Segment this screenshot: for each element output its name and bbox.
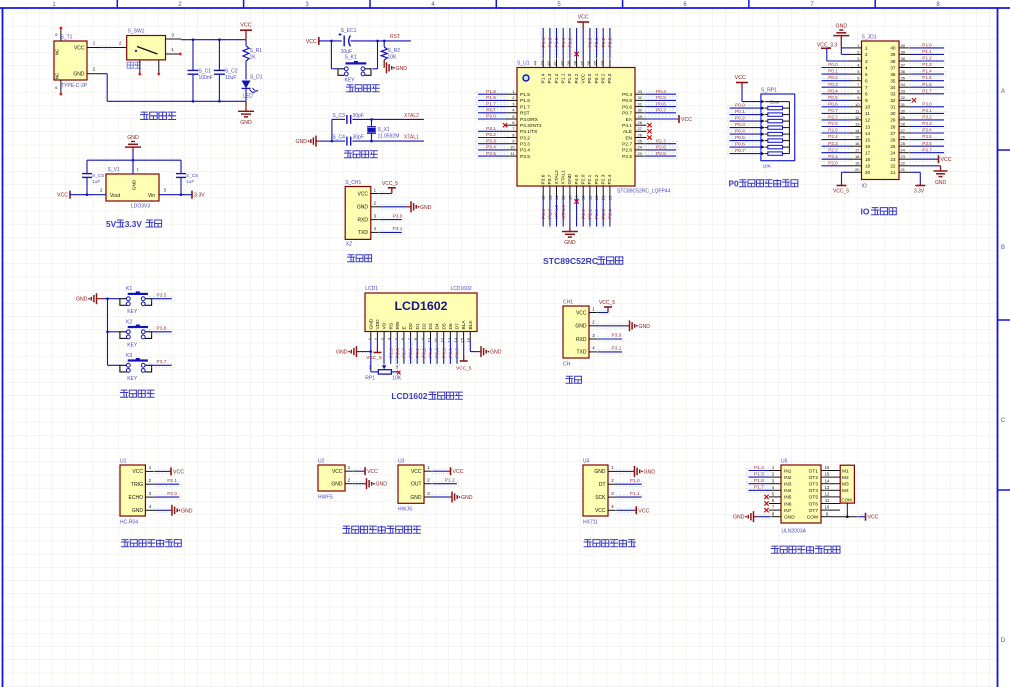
svg-text:VCC: VCC [306, 39, 317, 45]
svg-text:VCC: VCC [578, 15, 589, 21]
svg-text:D7: D7 [455, 323, 461, 329]
T1 top pin stub [60, 29, 62, 42]
svg-text:VCC: VCC [868, 515, 879, 521]
svg-text:S_JD1: S_JD1 [862, 35, 877, 41]
svg-text:P2.7: P2.7 [622, 142, 632, 148]
svg-text:VCC: VCC [357, 191, 368, 197]
svg-text:17: 17 [855, 148, 860, 153]
pin1 GND wire down-left and to potentiometer [370, 339, 372, 372]
svg-text:P0.1: P0.1 [594, 37, 600, 47]
svg-text:23: 23 [890, 157, 896, 162]
svg-text:P0.3: P0.3 [828, 82, 838, 87]
svg-text:11: 11 [865, 111, 870, 116]
svg-text:P0.5: P0.5 [735, 135, 745, 141]
svg-text:28: 28 [638, 120, 643, 125]
svg-text:P1.1: P1.1 [922, 49, 932, 54]
svg-text:OT1: OT1 [809, 468, 819, 474]
svg-text:GND: GND [240, 120, 252, 126]
svg-text:13: 13 [855, 121, 860, 126]
svg-text:VCC: VCC [240, 23, 251, 29]
svg-text:10: 10 [510, 145, 515, 150]
svg-text:35: 35 [901, 76, 906, 81]
svg-text:TYPE-C-2P: TYPE-C-2P [61, 83, 88, 89]
svg-text:P2.3: P2.3 [828, 141, 838, 146]
svg-text:E: E [402, 326, 408, 329]
svg-text:32: 32 [890, 98, 896, 103]
svg-text:M4: M4 [842, 488, 849, 494]
svg-text:24: 24 [890, 151, 896, 156]
svg-text:33: 33 [638, 89, 643, 94]
svg-text:5: 5 [865, 72, 868, 77]
power supply circuit 电源电路 [54, 23, 263, 126]
svg-text:GND: GND [784, 515, 795, 521]
svg-text:S_SW1: S_SW1 [128, 29, 145, 35]
pin3 wire net P2.0 [154, 495, 181, 499]
svg-text:28: 28 [890, 124, 896, 129]
svg-text:P1.0: P1.0 [922, 43, 932, 48]
JD1 right pins 40-21 [899, 47, 911, 49]
svg-text:XZ: XZ [346, 242, 352, 248]
wire EC1 to RST net [351, 40, 411, 42]
svg-text:ECHO: ECHO [129, 495, 144, 501]
svg-text:RP1: RP1 [365, 376, 375, 382]
svg-text:P0.4: P0.4 [435, 348, 441, 358]
svg-text:P0.6: P0.6 [656, 101, 666, 107]
svg-text:23: 23 [638, 151, 643, 156]
svg-text:P2.3: P2.3 [601, 209, 607, 219]
svg-text:K2: K2 [126, 319, 132, 325]
svg-text:P0.1: P0.1 [415, 348, 421, 358]
svg-text:P1.2: P1.2 [922, 56, 932, 61]
svg-text:P0.0: P0.0 [408, 348, 414, 358]
svg-text:U3: U3 [398, 459, 405, 465]
reset circuit 复位电路 [306, 28, 411, 92]
svg-text:P2.6: P2.6 [395, 348, 401, 358]
U1 left pins 1-11 [506, 93, 518, 95]
svg-text:P0.3: P0.3 [607, 73, 613, 83]
svg-text:K1: K1 [126, 286, 132, 292]
svg-text:14: 14 [865, 131, 871, 136]
svg-text:32: 32 [638, 95, 643, 100]
svg-text:15: 15 [825, 472, 830, 477]
svg-text:P1.5: P1.5 [922, 75, 932, 80]
common rail inside pack [765, 101, 789, 103]
U2 pin1 to VCC [353, 469, 365, 473]
svg-text:GND: GND [639, 324, 651, 330]
svg-text:1K: 1K [250, 55, 257, 61]
svg-text:P3.3: P3.3 [922, 121, 932, 126]
svg-text:P1.6: P1.6 [486, 95, 496, 101]
svg-text:GND: GND [73, 72, 85, 78]
motor connector COM pin down wire [846, 503, 848, 517]
svg-text:P4.2: P4.2 [574, 73, 580, 83]
svg-text:37: 37 [901, 63, 906, 68]
svg-text:GND: GND [368, 318, 374, 329]
svg-text:21: 21 [890, 170, 896, 175]
push button K1 KEY [108, 298, 121, 300]
title 复位电路 [347, 85, 354, 92]
svg-text:27: 27 [638, 126, 643, 131]
svg-text:P2.5: P2.5 [828, 128, 838, 133]
svg-text:EA: EA [626, 117, 633, 123]
svg-text:P0.0: P0.0 [828, 62, 838, 67]
svg-text:VCC: VCC [735, 75, 746, 81]
svg-text:1: 1 [865, 46, 868, 51]
svg-text:VCC_5: VCC_5 [456, 366, 472, 372]
svg-text:P1.3: P1.3 [547, 73, 553, 83]
svg-text:P2.1: P2.1 [828, 154, 838, 159]
svg-text:S_C2: S_C2 [225, 69, 238, 75]
svg-text:TXD: TXD [577, 350, 587, 356]
svg-text:42: 42 [546, 60, 551, 65]
svg-text:P0.0: P0.0 [588, 37, 594, 47]
svg-text:U1: U1 [120, 459, 127, 465]
vertical trunk wire [107, 299, 109, 366]
svg-text:VCC: VCC [638, 508, 649, 514]
svg-text:P2.3: P2.3 [601, 174, 607, 184]
svg-text:12: 12 [855, 115, 860, 120]
svg-text:P4.1: P4.1 [622, 123, 632, 129]
svg-text:29: 29 [901, 115, 906, 120]
svg-text:XTAL2: XTAL2 [554, 170, 560, 185]
svg-text:GND: GND [935, 180, 947, 186]
svg-text:VCC: VCC [576, 310, 587, 316]
svg-text:EN: EN [625, 135, 632, 141]
svg-text:IO: IO [861, 207, 870, 217]
svg-text:9: 9 [865, 98, 868, 103]
svg-text:36: 36 [890, 72, 896, 77]
connector T1 TYPE-C-2P [54, 41, 87, 80]
svg-text:VCC: VCC [411, 469, 422, 475]
wire gnd down to regulator [132, 152, 134, 174]
svg-text:LCD1602: LCD1602 [394, 299, 447, 313]
svg-text:RXD: RXD [576, 337, 587, 343]
svg-text:2: 2 [865, 52, 868, 57]
pin4 wire to VCC [616, 508, 636, 512]
U1 bottom pins 12-22 [542, 186, 544, 198]
svg-text:P0.6: P0.6 [735, 142, 745, 148]
svg-text:P3.3: P3.3 [486, 138, 496, 144]
svg-text:P2.5: P2.5 [388, 348, 394, 358]
svg-text:LDO3V3: LDO3V3 [131, 204, 150, 210]
GND power port [245, 101, 247, 111]
svg-text:P1.7: P1.7 [486, 101, 496, 107]
pin32 no connect [912, 98, 916, 102]
svg-text:33: 33 [901, 89, 906, 94]
wire net P3.5 [150, 297, 174, 301]
svg-text:29: 29 [638, 114, 643, 119]
capacitor C1 100nF [192, 40, 194, 71]
svg-text:P3.0: P3.0 [922, 101, 932, 106]
svg-text:40: 40 [901, 43, 906, 48]
svg-text:31: 31 [638, 101, 643, 106]
svg-text:20: 20 [865, 170, 871, 175]
svg-text:S_R1: S_R1 [250, 48, 263, 54]
svg-text:XTAL1: XTAL1 [561, 204, 567, 219]
IR receiver module U3 HWJS [343, 459, 473, 534]
COM net wire to VCC [833, 516, 861, 518]
svg-text:15: 15 [855, 135, 860, 140]
svg-text:OT6: OT6 [809, 501, 819, 507]
wire XTAL2 net [352, 118, 424, 120]
wire OT3 to M3 [833, 483, 841, 485]
svg-text:P2.2: P2.2 [828, 147, 838, 152]
svg-text:P0.6: P0.6 [622, 104, 632, 110]
svg-text:S_RP1: S_RP1 [761, 88, 777, 94]
GND power port left [315, 136, 317, 147]
svg-text:18: 18 [865, 157, 871, 162]
svg-text:P2.6: P2.6 [622, 148, 632, 154]
svg-text:P0.2: P0.2 [421, 348, 427, 358]
svg-text:10: 10 [855, 102, 860, 107]
svg-text:24: 24 [901, 148, 906, 153]
svg-text:17: 17 [865, 151, 871, 156]
svg-text:14: 14 [825, 478, 830, 483]
serial port connector CH1 串口 [563, 300, 650, 384]
svg-text:P1.1: P1.1 [561, 37, 567, 47]
svg-text:15: 15 [865, 137, 871, 142]
svg-text:SCK: SCK [595, 495, 606, 501]
svg-text:XTAL2: XTAL2 [404, 113, 419, 119]
resistor R2 10K [383, 41, 385, 47]
svg-text:P0.4: P0.4 [735, 129, 745, 135]
svg-text:P0: P0 [729, 180, 740, 189]
svg-text:STC89C52RC: STC89C52RC [543, 256, 598, 266]
svg-text:23: 23 [901, 154, 906, 159]
title 下载口 [348, 255, 355, 262]
svg-text:P4.0: P4.0 [574, 174, 580, 184]
svg-text:30pF: 30pF [353, 135, 364, 141]
svg-text:30: 30 [901, 108, 906, 113]
key circuit 按键电路 [76, 286, 174, 397]
svg-text:16: 16 [855, 141, 860, 146]
svg-text:P3.6: P3.6 [541, 209, 547, 219]
svg-text:P2.1: P2.1 [167, 478, 177, 484]
svg-text:26: 26 [638, 132, 643, 137]
title 压力检测模块 [584, 540, 591, 547]
pack resistor element 7 net P0.6 [765, 146, 768, 148]
svg-text:P3.6: P3.6 [541, 174, 547, 184]
svg-text:P2.0: P2.0 [581, 209, 587, 219]
svg-text:D1: D1 [415, 323, 421, 329]
U2 pin2 to GND [353, 482, 366, 486]
crystal X1 11.0592M [371, 119, 373, 126]
svg-text:RXD: RXD [357, 217, 368, 223]
svg-text:11: 11 [825, 498, 830, 503]
svg-text:P1.2: P1.2 [554, 37, 560, 47]
svg-text:Vout: Vout [110, 193, 121, 199]
pin4 wire net P3.1 [379, 230, 404, 234]
svg-text:P2.5: P2.5 [656, 151, 666, 157]
svg-text:10K: 10K [392, 376, 402, 382]
svg-text:P3.2: P3.2 [486, 132, 496, 138]
svg-text:P0.5: P0.5 [622, 98, 632, 104]
pin1 wire to VCC_5 [379, 191, 394, 195]
svg-text:IN2: IN2 [784, 475, 792, 481]
svg-text:D3: D3 [428, 323, 434, 329]
svg-text:12: 12 [865, 118, 871, 123]
svg-text:5V: 5V [106, 220, 117, 229]
capacitor C6 1uF [180, 160, 182, 173]
VCC power port left [318, 37, 320, 45]
svg-text:P1.0: P1.0 [630, 478, 640, 484]
svg-text:3.3V: 3.3V [914, 189, 925, 195]
title 四相五线步进电机 [771, 546, 778, 553]
potentiometer RP1 10K [378, 370, 391, 374]
svg-text:D6: D6 [448, 323, 454, 329]
wire OT1 to M1 [833, 470, 841, 472]
svg-text:P3.4: P3.4 [486, 145, 496, 151]
svg-text:P2.0: P2.0 [167, 491, 177, 497]
svg-text:25: 25 [638, 139, 643, 144]
svg-text:31: 31 [890, 105, 896, 110]
svg-text:P2.2: P2.2 [594, 174, 600, 184]
svg-text:P2.0: P2.0 [828, 160, 838, 165]
svg-text:6: 6 [865, 79, 868, 84]
pack resistor element 8 net P0.7 [765, 153, 768, 155]
svg-text:P1.6: P1.6 [754, 478, 764, 484]
svg-text:P0.2: P0.2 [601, 73, 607, 83]
U3 pin2 wire net P1.2 [432, 482, 459, 486]
svg-text:S_U1: S_U1 [517, 61, 530, 67]
svg-text:GND: GND [181, 508, 193, 514]
svg-text:GND: GND [575, 324, 587, 330]
svg-text:P1.7: P1.7 [754, 485, 764, 491]
svg-text:38: 38 [573, 60, 578, 65]
svg-text:100nF: 100nF [199, 75, 213, 81]
svg-text:S_V1: S_V1 [108, 167, 120, 173]
svg-text:37: 37 [890, 65, 896, 70]
svg-text:VCC_5: VCC_5 [599, 300, 615, 306]
pin3 wire net P3.0 [598, 337, 625, 341]
title 分离式红外开关模块 [343, 526, 350, 533]
svg-text:COM: COM [807, 515, 818, 521]
svg-text:D4: D4 [435, 323, 441, 329]
svg-text:P1.4: P1.4 [541, 73, 547, 83]
svg-text:RST: RST [390, 34, 400, 40]
svg-text:39: 39 [890, 52, 896, 57]
title 超声波测距模块 [121, 540, 128, 547]
svg-text:P4.3/INT2: P4.3/INT2 [520, 123, 542, 129]
pin4 wire to GND [154, 508, 171, 512]
svg-text:S_C3: S_C3 [332, 113, 345, 119]
pack resistor element 3 net P0.2 [765, 120, 768, 122]
svg-text:P0.4: P0.4 [622, 92, 632, 98]
svg-text:GND: GND [420, 205, 432, 211]
svg-text:LCD1602: LCD1602 [451, 286, 472, 292]
svg-text:3.3V: 3.3V [194, 193, 205, 199]
GND power port left [96, 293, 98, 304]
svg-text:P3.4: P3.4 [922, 128, 932, 133]
svg-text:P0.5: P0.5 [656, 95, 666, 101]
svg-text:P3.4: P3.4 [520, 148, 530, 154]
svg-text:26: 26 [901, 135, 906, 140]
svg-text:P0.3: P0.3 [735, 122, 745, 128]
svg-text:P0.7: P0.7 [455, 348, 461, 358]
LED D1 [242, 81, 251, 89]
svg-text:P2.5: P2.5 [622, 154, 632, 160]
svg-text:P1.3: P1.3 [922, 62, 932, 67]
svg-text:P0.6: P0.6 [828, 101, 838, 106]
pin2 wire to GND [379, 205, 408, 209]
svg-text:P2.0: P2.0 [581, 174, 587, 184]
svg-text:P2.6: P2.6 [656, 145, 666, 151]
GND power port for R2 [383, 60, 385, 68]
U1 GND power port bottom [569, 227, 571, 232]
svg-text:P1.5: P1.5 [486, 89, 496, 95]
svg-text:GND: GND [594, 469, 606, 475]
SW1 bottom pin stubs [139, 60, 141, 73]
svg-text:HWJS: HWJS [398, 507, 413, 513]
svg-text:16: 16 [825, 465, 830, 470]
svg-text:IN5: IN5 [784, 495, 792, 501]
svg-text:KEY: KEY [127, 342, 138, 348]
svg-text:34: 34 [890, 85, 896, 90]
svg-text:P1.7: P1.7 [922, 88, 932, 93]
svg-text:HX711: HX711 [583, 520, 598, 526]
svg-text:P1.7: P1.7 [520, 104, 530, 110]
svg-text:P1.4: P1.4 [754, 465, 764, 471]
svg-text:31: 31 [901, 102, 906, 107]
svg-text:P1.2: P1.2 [445, 477, 455, 483]
svg-text:GND: GND [76, 297, 88, 303]
svg-text:XTAL1: XTAL1 [404, 135, 419, 141]
capacitor C5 1uF [86, 160, 88, 173]
svg-text:S_T1: S_T1 [61, 35, 73, 41]
svg-text:P1.0: P1.0 [567, 73, 573, 83]
svg-text:S_C1: S_C1 [199, 69, 212, 75]
input wires P1.4-P1.7 [746, 468, 771, 472]
svg-text:GND: GND [733, 515, 745, 521]
svg-text:3.3V: 3.3V [125, 220, 142, 229]
capacitor C2 10uF [218, 40, 220, 71]
svg-text:10: 10 [865, 105, 871, 110]
svg-text:BLK: BLK [468, 320, 474, 330]
resistor R1 1K [245, 40, 247, 46]
svg-text:CH: CH [563, 362, 571, 368]
svg-text:DT: DT [599, 482, 606, 488]
svg-text:RST: RST [520, 111, 530, 117]
svg-text:P3.0: P3.0 [486, 114, 496, 120]
svg-text:10uF: 10uF [225, 75, 236, 81]
svg-text:S_C4: S_C4 [332, 135, 345, 141]
svg-text:44: 44 [533, 60, 538, 65]
svg-text:P3.7: P3.7 [922, 147, 932, 152]
svg-text:ALE: ALE [623, 129, 632, 135]
svg-text:RS: RS [388, 323, 394, 330]
svg-text:P0.7: P0.7 [622, 111, 632, 117]
svg-text:P3.2: P3.2 [520, 135, 530, 141]
svg-text:P0.7: P0.7 [735, 148, 745, 154]
svg-text:P0.6: P0.6 [448, 348, 454, 358]
svg-text:TXD: TXD [358, 230, 368, 236]
svg-text:P3.6: P3.6 [922, 141, 932, 146]
svg-text:3: 3 [865, 59, 868, 64]
svg-text:19: 19 [865, 164, 871, 169]
svg-text:16: 16 [865, 144, 871, 149]
svg-text:M1: M1 [842, 468, 849, 474]
svg-text:P1.1: P1.1 [630, 491, 640, 497]
svg-text:D: D [1001, 638, 1006, 644]
svg-text:VCC: VCC [681, 117, 692, 123]
svg-text:P3.1: P3.1 [393, 226, 403, 232]
svg-text:36: 36 [586, 60, 591, 65]
svg-text:P3.7: P3.7 [547, 174, 553, 184]
svg-text:IO: IO [862, 184, 867, 190]
svg-text:P2.2: P2.2 [594, 209, 600, 219]
MCU U1 STC89C52RC LQFP44 [476, 15, 692, 267]
U1 right pins 33-23 [635, 93, 647, 95]
